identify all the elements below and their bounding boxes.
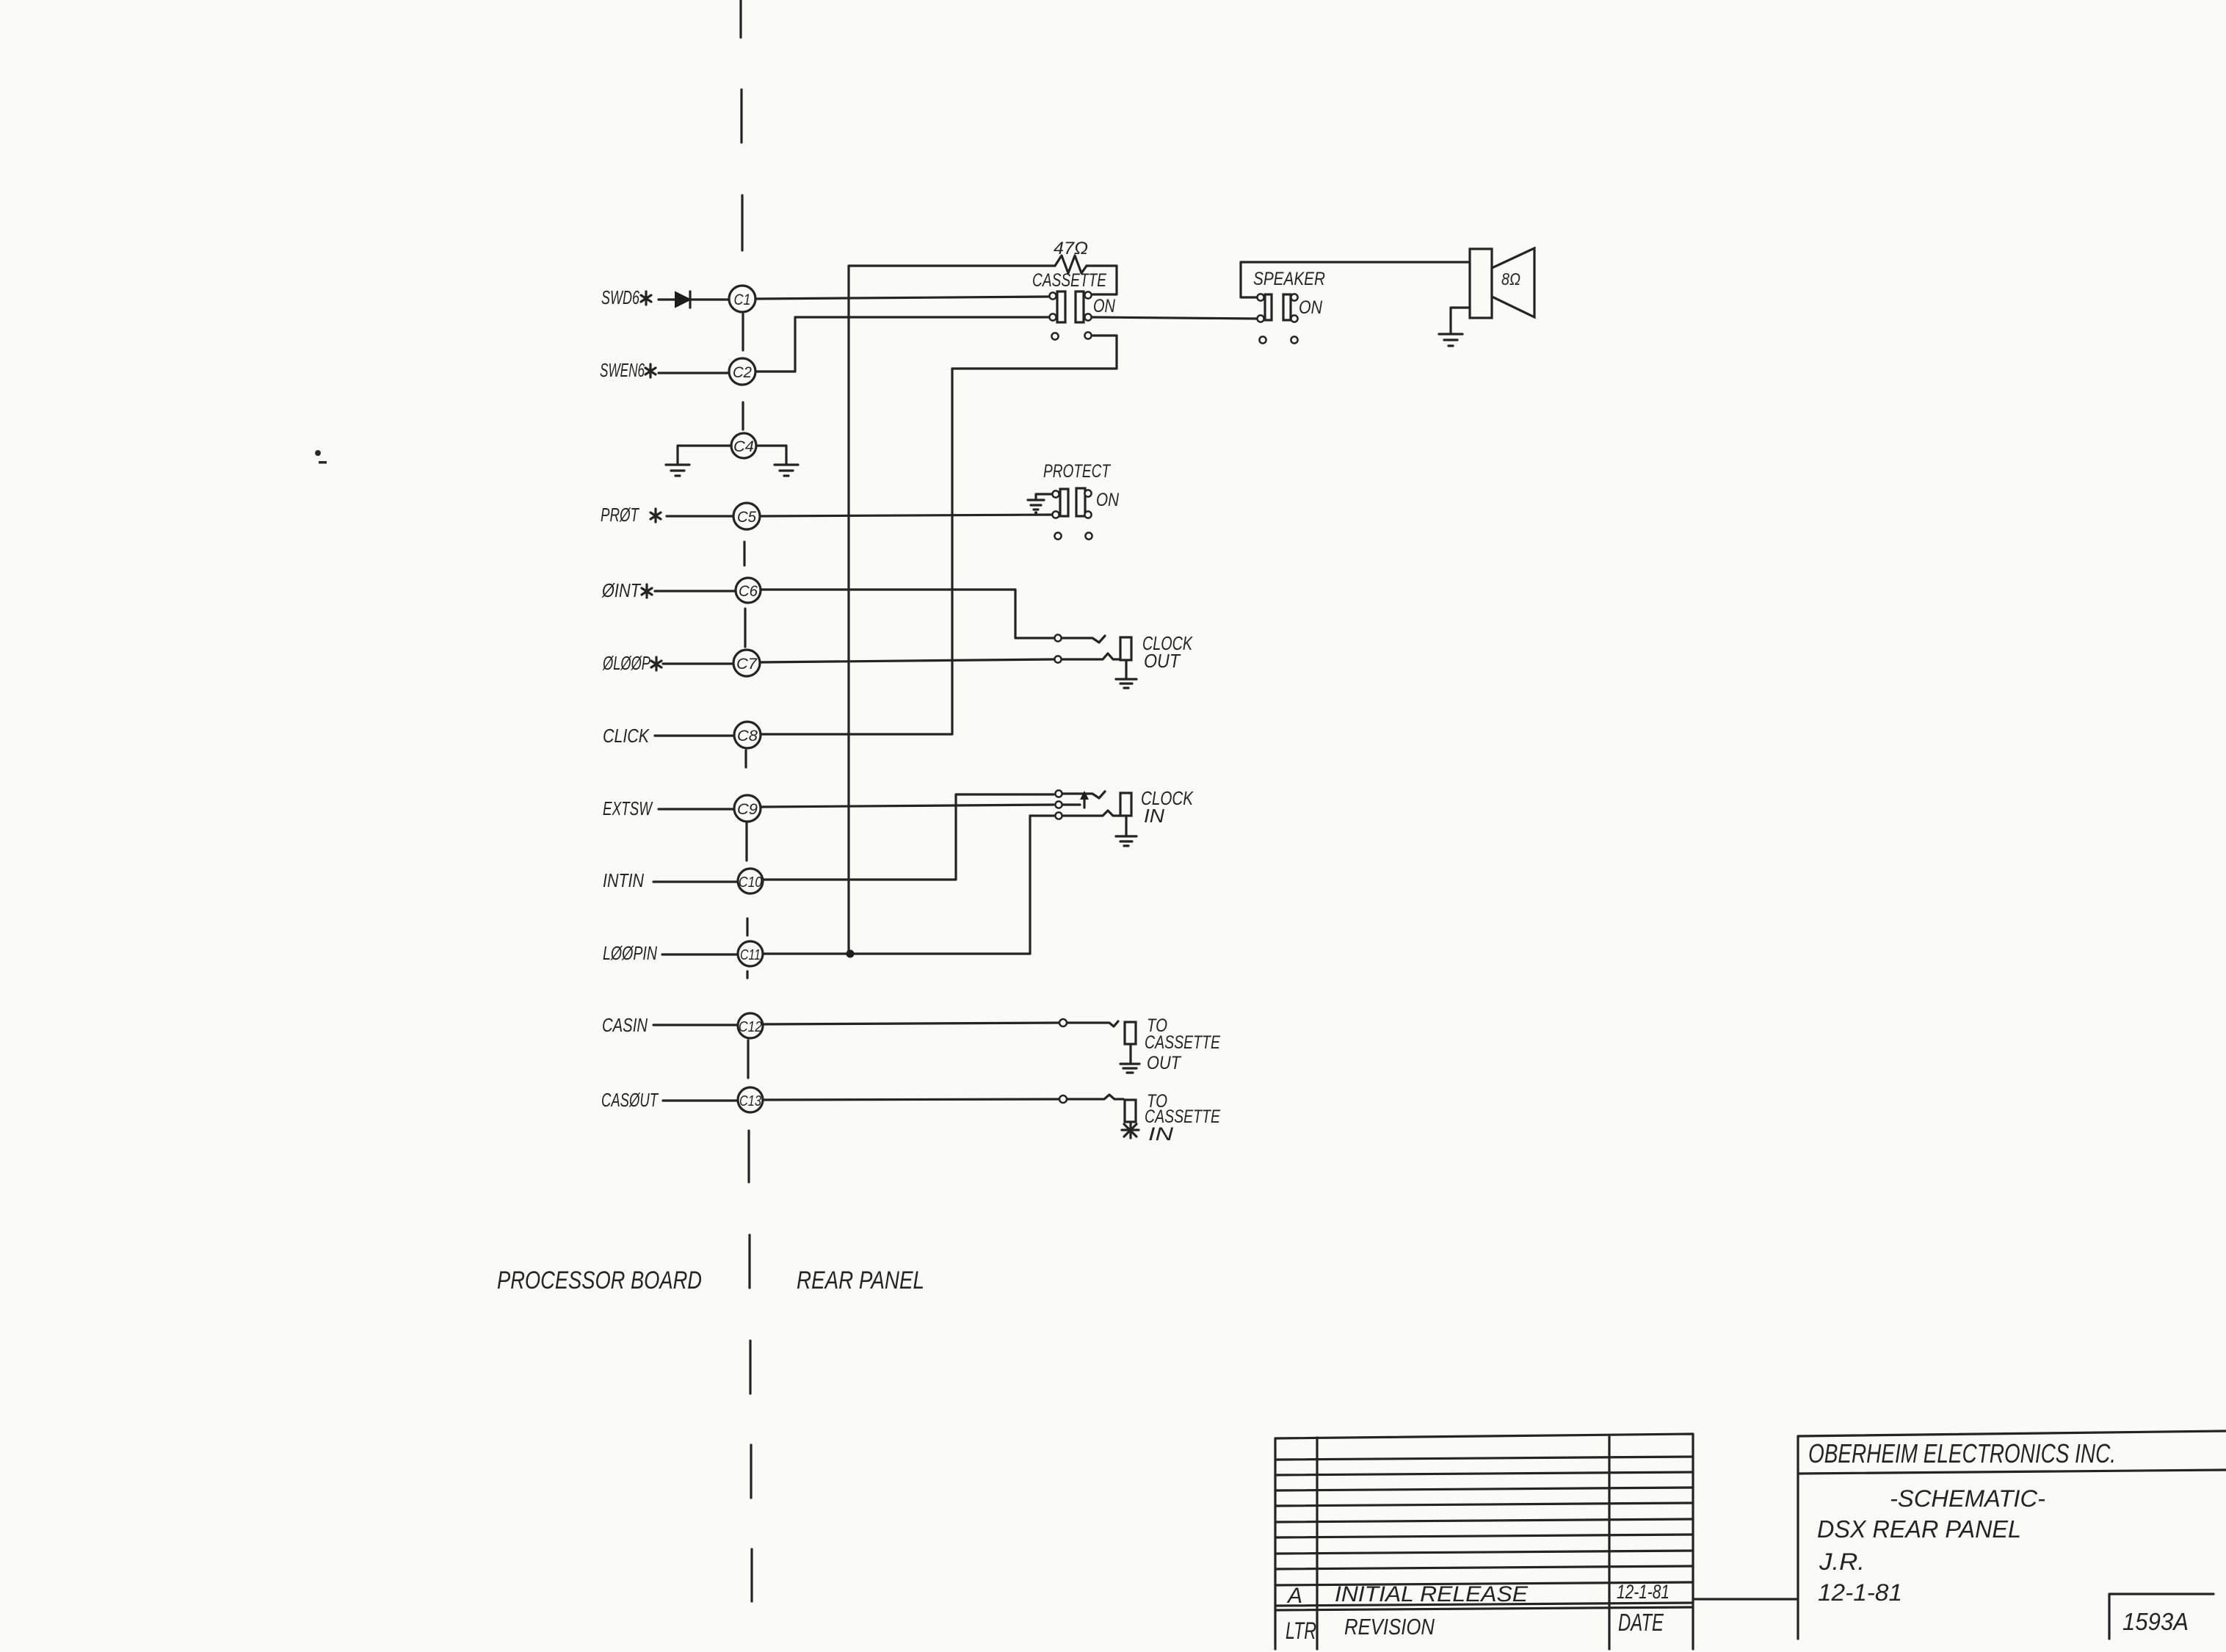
speaker switch off-position terminals	[1259, 336, 1297, 343]
connector pin C12	[738, 1013, 763, 1038]
value label 47 ohm	[1054, 239, 1088, 258]
wire LOOPIN to C11	[662, 953, 738, 955]
svg-text:OUT: OUT	[1147, 1053, 1181, 1073]
cassette-out jack contact	[1067, 1021, 1118, 1026]
label CLOCK OUT	[1142, 632, 1193, 672]
wire speaker switch to speaker	[1241, 262, 1470, 297]
svg-text:OBERHEIM ELECTRONICS INC.: OBERHEIM ELECTRONICS INC.	[1808, 1438, 2116, 1468]
table header REVISION	[1344, 1614, 1435, 1640]
svg-text:C2: C2	[733, 364, 752, 381]
label ON (protect)	[1096, 490, 1120, 510]
svg-text:REAR PANEL: REAR PANEL	[797, 1267, 924, 1294]
connector pin C6	[736, 578, 761, 603]
ground	[1120, 1064, 1139, 1073]
wire 47-ohm resistor to cassette switch ON contact	[1087, 266, 1117, 294]
net label PROT*	[601, 504, 661, 526]
svg-text:DSX REAR PANEL: DSX REAR PANEL	[1817, 1515, 2021, 1543]
protect switch S3 contacts	[1060, 488, 1085, 516]
connector pin C7	[733, 650, 760, 676]
svg-text:12-1-81: 12-1-81	[1617, 1581, 1669, 1603]
wire diode to C1	[690, 298, 729, 300]
connector pin C2	[729, 358, 755, 385]
svg-text:A: A	[1286, 1584, 1302, 1608]
connector pin C8	[734, 722, 761, 748]
wire cassette-out jack to ground	[1129, 1044, 1131, 1063]
switch label CASSETTE	[1032, 270, 1106, 291]
diode (series on SWD6 line)	[675, 291, 690, 308]
svg-text:ON: ON	[1299, 297, 1323, 318]
wire CLICK to C8	[655, 734, 734, 736]
svg-text:LØØPIN: LØØPIN	[603, 942, 657, 964]
svg-text:IN: IN	[1144, 805, 1164, 827]
wire CASOUT to C13	[663, 1099, 739, 1101]
chassis ground (asterisk)	[1122, 1122, 1139, 1138]
svg-text:INITIAL RELEASE: INITIAL RELEASE	[1335, 1582, 1529, 1606]
svg-text:-SCHEMATIC-: -SCHEMATIC-	[1890, 1485, 2045, 1512]
protect switch terminals	[1052, 490, 1091, 518]
resistor 47 ohm	[1055, 256, 1087, 273]
svg-text:ON: ON	[1093, 296, 1116, 316]
label CLOCK IN	[1141, 787, 1194, 827]
svg-text:C11: C11	[740, 947, 761, 963]
switch label PROTECT	[1043, 461, 1111, 482]
net label LOOPIN	[603, 942, 657, 964]
svg-text:C6: C6	[739, 583, 758, 600]
wire 0INT* to C6	[655, 590, 735, 592]
connector pin C1	[729, 286, 755, 312]
svg-text:C1: C1	[734, 291, 751, 308]
svg-text:CASSETTE: CASSETTE	[1145, 1032, 1220, 1053]
svg-text:ØLØØP: ØLØØP	[602, 652, 650, 674]
wire INTIN to C10	[653, 880, 737, 883]
connector pin C5	[733, 503, 760, 529]
junction dot (LOOPIN / cassette loop wire)	[846, 950, 855, 958]
ground	[775, 465, 798, 476]
svg-text:47Ω: 47Ω	[1054, 239, 1088, 258]
svg-text:C8: C8	[737, 728, 758, 745]
revision date 12-1-81	[1617, 1581, 1669, 1603]
cassette switch off-position terminals	[1051, 332, 1091, 339]
svg-text:ON: ON	[1096, 490, 1120, 510]
wire C9 to CLOCK IN jack ring	[761, 805, 1054, 807]
svg-text:C13: C13	[739, 1093, 761, 1109]
wire C4 right to ground	[756, 446, 786, 464]
wire CLOCK IN jack to ground	[1125, 816, 1127, 836]
svg-text:ØINT: ØINT	[601, 579, 642, 601]
wire C8 to cassette switch spare terminal	[761, 336, 1117, 734]
ground	[1116, 836, 1136, 846]
speaker switch S2 contacts	[1265, 294, 1291, 320]
svg-text:CASØUT: CASØUT	[601, 1089, 659, 1111]
jack TO CASSETTE OUT body	[1125, 1022, 1136, 1044]
svg-text:PROTECT: PROTECT	[1043, 461, 1111, 482]
svg-text:PRØT: PRØT	[601, 504, 640, 526]
svg-text:IN: IN	[1148, 1124, 1174, 1145]
svg-text:PROCESSOR BOARD: PROCESSOR BOARD	[497, 1267, 702, 1294]
jack terminal (CASIN)	[1059, 1019, 1067, 1026]
wire cassette 47-ohm loop down to LOOPIN junction	[849, 266, 1055, 954]
svg-text:EXTSW: EXTSW	[603, 797, 653, 819]
net label 0LOOP*	[602, 652, 661, 674]
wire C2 to cassette switch lower-left contact	[755, 317, 1049, 372]
jack CLOCK OUT tip contact	[1062, 636, 1105, 642]
svg-text:CLICK: CLICK	[603, 725, 650, 747]
title text J.R.	[1819, 1548, 1865, 1575]
net label INTIN	[603, 869, 644, 891]
jack CLOCK IN body	[1120, 793, 1131, 816]
cassette switch terminals	[1049, 291, 1091, 320]
wire cassette switch to speaker switch	[1092, 317, 1257, 319]
net label CLICK	[603, 725, 650, 747]
title text DSX REAR PANEL	[1817, 1515, 2021, 1543]
wire C1 to cassette switch upper-left contact	[755, 297, 1049, 299]
ground	[1439, 334, 1462, 346]
svg-text:INTIN: INTIN	[603, 869, 644, 891]
connector pin C11	[738, 941, 763, 966]
jack CLOCK OUT sleeve terminal	[1054, 656, 1061, 662]
wire PROT* to C5	[667, 515, 733, 517]
svg-text:DATE: DATE	[1618, 1609, 1664, 1636]
svg-text:C7: C7	[736, 656, 758, 673]
switch label SPEAKER	[1253, 269, 1325, 289]
svg-text:REVISION: REVISION	[1344, 1614, 1435, 1640]
connector pin C10	[738, 869, 763, 894]
svg-text:C12: C12	[739, 1019, 762, 1035]
net label CASIN	[602, 1014, 648, 1036]
jack CLOCK IN tip contact	[1063, 791, 1105, 798]
wire C4 left to ground	[678, 446, 731, 464]
ground	[1028, 500, 1044, 512]
jack CLOCK IN sleeve terminal	[1055, 812, 1062, 819]
net label SWEN6*	[600, 359, 656, 381]
net label CASOUT	[601, 1089, 659, 1111]
wire C10 to CLOCK IN jack tip	[763, 794, 1054, 880]
svg-text:J.R.: J.R.	[1819, 1548, 1865, 1575]
speaker switch terminals	[1257, 294, 1297, 322]
label PROCESSOR BOARD	[497, 1267, 702, 1294]
wire C6 to CLOCK OUT jack tip	[761, 590, 1054, 638]
connector pin C4	[731, 433, 756, 458]
label ON (cassette)	[1093, 296, 1116, 316]
jack CLOCK OUT sleeve contact	[1062, 653, 1120, 659]
cassette-in jack contact	[1067, 1095, 1123, 1099]
label TO CASSETTE OUT	[1145, 1015, 1220, 1073]
wire EXTSW to C9	[659, 808, 734, 810]
wire CLOCK OUT jack to ground	[1125, 660, 1127, 678]
protect switch off-position terminals	[1054, 532, 1092, 539]
speaker LS1	[1470, 248, 1534, 318]
jack CLOCK OUT tip terminal	[1054, 634, 1061, 641]
label TO CASSETTE IN	[1145, 1091, 1220, 1145]
revision text INITIAL RELEASE	[1335, 1582, 1529, 1606]
value label 8 ohm	[1501, 269, 1520, 289]
jack terminal (CASOUT)	[1059, 1095, 1067, 1103]
wire speaker to ground	[1451, 308, 1470, 333]
net label EXTSW	[603, 797, 653, 819]
wire C7 to CLOCK OUT jack sleeve	[760, 659, 1054, 662]
wire C11 to CLOCK IN jack sleeve	[763, 816, 1054, 954]
jack CLOCK OUT body	[1120, 637, 1131, 660]
wire C13 to cassette-in jack	[763, 1099, 1059, 1100]
net label 0INT*	[601, 579, 652, 601]
title text OBERHEIM ELECTRONICS INC.	[1808, 1438, 2116, 1468]
svg-text:SWEN6: SWEN6	[600, 359, 645, 381]
svg-text:OUT: OUT	[1144, 650, 1181, 672]
cassette switch S1 contacts	[1057, 291, 1084, 322]
wire C5 to protect switch lower-left contact	[760, 515, 1051, 516]
title block frame	[1693, 1431, 2226, 1639]
wire SWD6* to diode	[659, 298, 675, 300]
svg-text:LTR: LTR	[1286, 1617, 1316, 1644]
drawing number box 1593A	[2109, 1594, 2214, 1639]
net label SWD6*	[601, 286, 651, 308]
table header LTR	[1286, 1617, 1316, 1644]
connector pin C13	[738, 1087, 763, 1112]
table header DATE	[1618, 1609, 1664, 1636]
wire CASIN to C12	[653, 1024, 739, 1026]
ground	[666, 465, 689, 476]
svg-text:C10: C10	[739, 874, 762, 891]
svg-text:C9: C9	[737, 801, 758, 818]
svg-text:CASIN: CASIN	[602, 1014, 648, 1036]
svg-text:SPEAKER: SPEAKER	[1253, 269, 1325, 289]
board boundary dashed line (processor board / rear panel)	[741, 0, 752, 1601]
title text -SCHEMATIC-	[1890, 1485, 2045, 1512]
label ON (speaker)	[1299, 297, 1323, 318]
svg-text:SWD6: SWD6	[601, 286, 639, 308]
jack TO CASSETTE IN body	[1125, 1100, 1136, 1122]
wire SWEN6* to C2	[659, 372, 729, 374]
ground	[1116, 679, 1136, 688]
svg-text:8Ω: 8Ω	[1501, 269, 1520, 289]
wire protect switch to ground	[1036, 494, 1052, 499]
revision table	[1275, 1434, 1693, 1649]
jack CLOCK IN ring terminal	[1055, 801, 1062, 808]
svg-text:C4: C4	[733, 438, 754, 455]
connector pin C9	[734, 795, 761, 822]
svg-text:C5: C5	[737, 509, 756, 526]
wire C12 to cassette-out jack	[763, 1023, 1059, 1024]
jack CLOCK IN sleeve contact	[1063, 811, 1120, 816]
wire 0LOOP* to C7	[663, 662, 733, 664]
jack CLOCK IN switch arrow	[1063, 791, 1089, 808]
revision letter A	[1286, 1584, 1302, 1608]
title text 12-1-81	[1818, 1579, 1902, 1606]
label REAR PANEL	[797, 1267, 924, 1294]
svg-text:CASSETTE: CASSETTE	[1032, 270, 1106, 291]
jack CLOCK IN tip terminal	[1055, 790, 1062, 797]
svg-text:1593A: 1593A	[2122, 1608, 2189, 1635]
svg-text:12-1-81: 12-1-81	[1818, 1579, 1902, 1606]
